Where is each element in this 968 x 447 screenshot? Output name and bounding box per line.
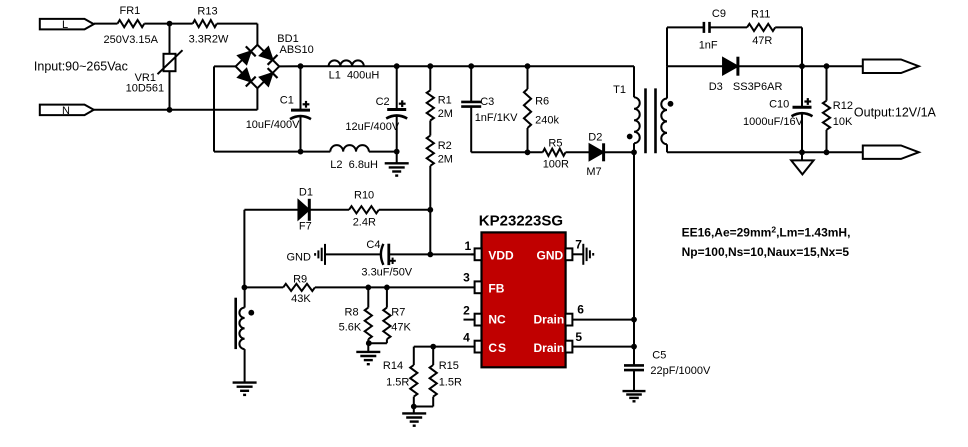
node R12 bottom: [824, 149, 830, 155]
node R1 top: [427, 63, 433, 69]
wire D2 to primary: [604, 151, 634, 153]
svg-text:R13: R13: [197, 5, 217, 17]
svg-text:R11: R11: [751, 9, 770, 21]
wire D3 to output: [738, 65, 863, 67]
node R10/R2: [427, 207, 433, 213]
capacitor C5: [624, 347, 711, 392]
wire C9 to R11: [710, 26, 748, 28]
wire secondary to C9 line: [666, 27, 668, 66]
svg-text:10K: 10K: [833, 116, 853, 128]
pin 6 Drain: [534, 303, 585, 327]
wire secondary bottom rail: [667, 151, 863, 153]
resistor R6: [524, 66, 560, 152]
wire snubber: [471, 151, 543, 153]
svg-text:5: 5: [575, 330, 582, 344]
wire R15 bottom to R14: [414, 397, 433, 407]
svg-text:VDD: VDD: [488, 248, 514, 262]
node R12 top: [824, 63, 830, 69]
wire R2 to VDD line: [429, 210, 431, 255]
svg-text:22pF/1000V: 22pF/1000V: [650, 365, 711, 377]
pin 3 FB: [463, 271, 505, 296]
transformer T1 primary: [613, 66, 640, 152]
svg-text:ABS10: ABS10: [280, 44, 314, 56]
svg-text:2M: 2M: [438, 108, 453, 120]
wire bridge right to rail: [279, 65, 300, 67]
node C10 top: [799, 63, 805, 69]
svg-text:GND: GND: [537, 248, 564, 262]
pin 7 GND: [537, 238, 583, 263]
node FR1/R13/VR1: [167, 21, 173, 27]
svg-text:GND: GND: [287, 251, 312, 263]
resistor R14: [383, 360, 418, 397]
label Input: [34, 59, 128, 73]
T1 aux winding: [239, 287, 244, 382]
wire NC stub: [464, 319, 475, 321]
node primary bottom: [631, 149, 637, 155]
input terminal N: [40, 105, 94, 117]
svg-text:C S: C S: [488, 341, 506, 355]
node R7 top: [384, 285, 390, 291]
svg-text:3: 3: [463, 271, 470, 285]
node C1 bottom: [298, 149, 304, 155]
wire D1 to R10: [311, 209, 350, 211]
svg-text:R5: R5: [548, 137, 562, 149]
svg-text:240k: 240k: [535, 115, 559, 127]
node C2 top: [394, 63, 400, 69]
svg-text:R8: R8: [345, 307, 359, 319]
node R6 top: [525, 63, 531, 69]
chassis ground: [791, 152, 813, 174]
svg-text:SS3P6AR: SS3P6AR: [733, 81, 783, 93]
node R8/R7 bottom: [366, 340, 372, 346]
diode D1: [298, 186, 313, 232]
ground under R8: [356, 343, 380, 364]
wire N to bridge bottom: [94, 88, 258, 110]
svg-text:L1 400uH: L1 400uH: [329, 69, 380, 81]
T1 core: [646, 88, 656, 153]
svg-text:KP23223SG: KP23223SG: [479, 212, 563, 229]
svg-text:43K: 43K: [291, 293, 311, 305]
node R15 top: [430, 344, 436, 350]
svg-text:R2: R2: [438, 140, 452, 152]
svg-text:4: 4: [463, 331, 470, 345]
wire pin6 to drain: [573, 319, 634, 321]
fuse FR1: [104, 5, 159, 46]
node C1 top: [298, 63, 304, 69]
svg-text:47K: 47K: [391, 322, 411, 334]
pin 2 NC: [463, 303, 506, 326]
resistor R12: [823, 66, 853, 152]
svg-text:L: L: [62, 19, 68, 31]
input terminal L: [40, 19, 94, 31]
svg-text:2: 2: [463, 303, 470, 317]
svg-text:7: 7: [575, 238, 582, 252]
inductor L1: [329, 60, 380, 81]
capacitor C9: [699, 8, 726, 52]
resistor R8: [339, 287, 372, 343]
svg-text:C4: C4: [366, 239, 380, 251]
diode D3: [709, 57, 783, 93]
svg-text:R6: R6: [535, 96, 549, 108]
svg-text:C10: C10: [769, 98, 789, 110]
svg-text:EE16,Ae=29mm2,Lm=1.43mH,: EE16,Ae=29mm2,Lm=1.43mH,: [682, 224, 851, 239]
node C10 bottom: [799, 149, 805, 155]
resistor R9: [283, 274, 315, 306]
inductor L2: [330, 145, 378, 171]
bridge rectifier BD1: [236, 33, 314, 88]
svg-text:R10: R10: [354, 190, 374, 202]
svg-text:1.5R: 1.5R: [439, 376, 462, 388]
T1 aux phase dot: [248, 310, 254, 316]
wire C9 line left: [667, 26, 704, 28]
resistor R5: [543, 137, 569, 170]
ground under C2: [385, 152, 409, 176]
wire R5 to D2: [566, 151, 590, 153]
svg-text:2.4R: 2.4R: [353, 217, 376, 229]
pin 4 CS: [463, 331, 506, 356]
svg-text:D1: D1: [299, 186, 313, 198]
svg-text:R1: R1: [438, 95, 452, 107]
wire drain vertical: [633, 152, 635, 346]
svg-text:R12: R12: [833, 100, 853, 112]
svg-text:Output:12V/1A: Output:12V/1A: [854, 106, 937, 120]
node R14/R15 bottom: [411, 404, 417, 410]
svg-text:12uF/400V: 12uF/400V: [345, 121, 399, 133]
svg-text:T1: T1: [613, 84, 626, 96]
svg-text:L2 6.8uH: L2 6.8uH: [330, 159, 378, 171]
svg-text:FB: FB: [488, 282, 504, 296]
wire L to FR1: [94, 23, 118, 25]
pin 5 Drain: [534, 330, 583, 355]
node R9 left: [242, 285, 248, 291]
svg-text:1nF: 1nF: [699, 40, 718, 52]
svg-text:FR1: FR1: [120, 5, 141, 17]
output terminal -: [863, 146, 919, 159]
node C3 top: [468, 63, 474, 69]
capacitor C1: [246, 66, 311, 151]
svg-text:C9: C9: [712, 8, 726, 20]
T1 secondary phase dot: [668, 101, 674, 107]
svg-text:47R: 47R: [752, 35, 772, 47]
svg-text:2M: 2M: [438, 153, 453, 165]
node drain/C5: [631, 344, 637, 350]
ground under aux: [233, 383, 257, 395]
svg-text:100R: 100R: [543, 158, 569, 170]
output terminal +: [863, 60, 919, 74]
svg-text:C1: C1: [280, 95, 294, 107]
svg-text:R7: R7: [391, 307, 405, 319]
svg-text:F7: F7: [299, 221, 312, 233]
wire R9 to FB pin: [315, 286, 475, 288]
resistor R13: [189, 5, 229, 45]
ground under R14: [402, 407, 426, 426]
svg-text:R15: R15: [439, 360, 459, 372]
wire FR1 to R13: [144, 23, 192, 25]
resistor R11: [747, 9, 775, 47]
wire CS line: [414, 347, 475, 365]
node C2 bottom: [394, 149, 400, 155]
wire gnd to C4: [325, 253, 381, 255]
T1 aux core: [234, 298, 237, 349]
svg-text:NC: NC: [488, 313, 506, 327]
svg-text:3.3uF/50V: 3.3uF/50V: [361, 266, 412, 278]
wire aux to R9: [244, 286, 283, 288]
svg-text:N: N: [62, 105, 70, 117]
svg-text:5.6K: 5.6K: [339, 322, 362, 334]
label transformer spec line1: [682, 224, 851, 239]
wire pin5 to drain: [573, 346, 634, 348]
svg-text:10uF/400V: 10uF/400V: [246, 119, 300, 131]
wire bridge left to bottom rail: [214, 66, 236, 151]
wire R13 to bridge top: [217, 24, 258, 45]
svg-text:1.5R: 1.5R: [386, 376, 409, 388]
wire DC+ rail: [301, 65, 635, 67]
svg-text:Drain: Drain: [534, 313, 565, 327]
T1 primary phase dot: [627, 134, 633, 140]
svg-text:250V3.15A: 250V3.15A: [104, 34, 159, 46]
wire secondary top to D3: [667, 65, 723, 67]
op-amp U1 KP23223SG body: [479, 212, 566, 367]
svg-text:D3: D3: [709, 81, 723, 93]
resistor R15: [430, 347, 462, 407]
svg-text:C2: C2: [376, 96, 390, 108]
capacitor C3: [461, 66, 518, 152]
ground at C4: [315, 244, 325, 265]
svg-text:Input:90~265Vac: Input:90~265Vac: [34, 59, 128, 73]
svg-text:6: 6: [577, 303, 584, 317]
label transformer spec line2: [682, 245, 850, 259]
svg-text:R9: R9: [293, 274, 307, 286]
svg-text:10D561: 10D561: [126, 82, 165, 94]
resistor R1: [427, 66, 453, 120]
pin 1 VDD: [465, 239, 515, 263]
varistor VR1: [126, 24, 183, 110]
svg-text:C3: C3: [480, 96, 494, 108]
node R8 top: [365, 285, 371, 291]
resistor R7: [383, 287, 411, 343]
capacitor C4: [361, 239, 412, 278]
transformer T1 secondary: [661, 66, 667, 152]
wire pin1 stub: [471, 253, 475, 255]
resistor R10: [349, 190, 379, 229]
svg-text:BD1: BD1: [277, 33, 298, 45]
diode D2: [586, 132, 603, 178]
wire bottom rail: [214, 151, 397, 153]
svg-text:1nF/1KV: 1nF/1KV: [475, 112, 518, 124]
svg-text:Np=100,Ns=10,Naux=15,Nx=5: Np=100,Ns=10,Naux=15,Nx=5: [682, 245, 850, 259]
node C4/VDD/R2: [427, 252, 433, 258]
wire aux corner: [244, 210, 298, 288]
ground at pin7: [572, 244, 593, 265]
wire C4 to VDD: [389, 253, 475, 255]
label Output: [854, 106, 937, 120]
svg-text:R14: R14: [383, 360, 403, 372]
node drain/pin6: [631, 317, 637, 323]
node N/VR1: [167, 107, 173, 113]
ground under C5: [623, 391, 646, 401]
svg-text:Drain: Drain: [534, 341, 565, 355]
resistor R2: [427, 121, 453, 210]
svg-text:D2: D2: [588, 132, 602, 144]
capacitor C10: [743, 66, 813, 152]
label GND: [287, 251, 312, 263]
svg-text:C5: C5: [652, 350, 666, 362]
wire R11 to output node: [775, 27, 802, 66]
wire R10 to R2 line: [379, 209, 431, 211]
capacitor C2: [345, 66, 407, 151]
wire R7 bottom to R8: [368, 342, 387, 344]
svg-text:3.3R2W: 3.3R2W: [189, 33, 229, 45]
svg-text:M7: M7: [586, 166, 601, 178]
svg-text:1: 1: [465, 239, 472, 253]
node R6 bottom: [525, 149, 531, 155]
svg-text:1000uF/16V: 1000uF/16V: [743, 116, 804, 128]
